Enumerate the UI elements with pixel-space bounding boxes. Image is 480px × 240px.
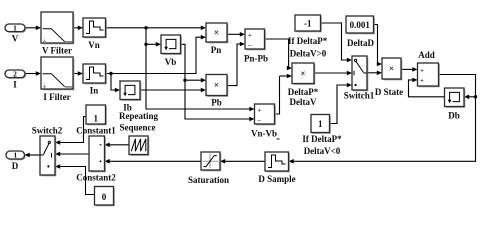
svg-text:×: × (214, 80, 219, 90)
svg-text:=: = (276, 137, 280, 144)
svg-text:Pn-Pb: Pn-Pb (244, 54, 268, 64)
svg-text:-1: -1 (304, 19, 312, 29)
svg-text:D State: D State (375, 87, 403, 97)
svg-text:1: 1 (13, 151, 17, 160)
svg-text:D Sample: D Sample (258, 174, 295, 184)
svg-text:DeltaP*: DeltaP* (288, 87, 319, 97)
svg-text:+: + (248, 32, 252, 39)
svg-text:Pb: Pb (211, 97, 222, 107)
svg-text:I: I (13, 80, 17, 90)
svg-text:V Filter: V Filter (42, 46, 72, 56)
svg-text:Constant1: Constant1 (76, 126, 116, 136)
svg-text:Add: Add (418, 50, 435, 60)
svg-text:–: – (247, 42, 252, 49)
svg-text:+: + (420, 67, 424, 74)
svg-text:×: × (389, 64, 394, 74)
svg-text:–: – (257, 117, 262, 124)
svg-text:DeltaD: DeltaD (347, 38, 374, 48)
svg-text:Db: Db (448, 111, 460, 121)
svg-text:Repeating: Repeating (119, 111, 158, 121)
svg-text:1: 1 (318, 119, 323, 129)
svg-text:D: D (12, 161, 19, 171)
svg-text:1: 1 (94, 114, 99, 124)
svg-text:Switch2: Switch2 (32, 125, 63, 135)
svg-text:If DeltaP*: If DeltaP* (302, 134, 342, 144)
svg-text:In: In (90, 86, 99, 96)
svg-text:0.001: 0.001 (350, 20, 371, 30)
svg-text:Saturation: Saturation (188, 175, 229, 185)
svg-text:Pn: Pn (211, 45, 222, 55)
svg-text:V: V (12, 34, 19, 44)
svg-text:Vn: Vn (88, 40, 100, 50)
svg-text:DeltaV: DeltaV (290, 97, 317, 107)
svg-text:Vb: Vb (165, 57, 177, 67)
svg-text:×: × (300, 68, 305, 78)
svg-text:Vn-Vb: Vn-Vb (251, 129, 277, 139)
svg-text:2: 2 (13, 69, 17, 78)
svg-text:×: × (214, 28, 219, 38)
svg-text:DeltaV>0: DeltaV>0 (290, 48, 327, 58)
svg-text:1: 1 (13, 23, 17, 32)
svg-text:Switch1: Switch1 (344, 91, 375, 101)
svg-text:Sequence: Sequence (120, 123, 156, 133)
svg-text:Constant2: Constant2 (76, 173, 116, 183)
svg-text:DeltaV<0: DeltaV<0 (304, 146, 341, 156)
svg-text:I Filter: I Filter (43, 92, 70, 102)
svg-text:0: 0 (102, 192, 107, 202)
svg-text:If DeltaP*: If DeltaP* (288, 36, 328, 46)
svg-text:+: + (420, 78, 424, 85)
svg-text:+: + (257, 107, 261, 114)
